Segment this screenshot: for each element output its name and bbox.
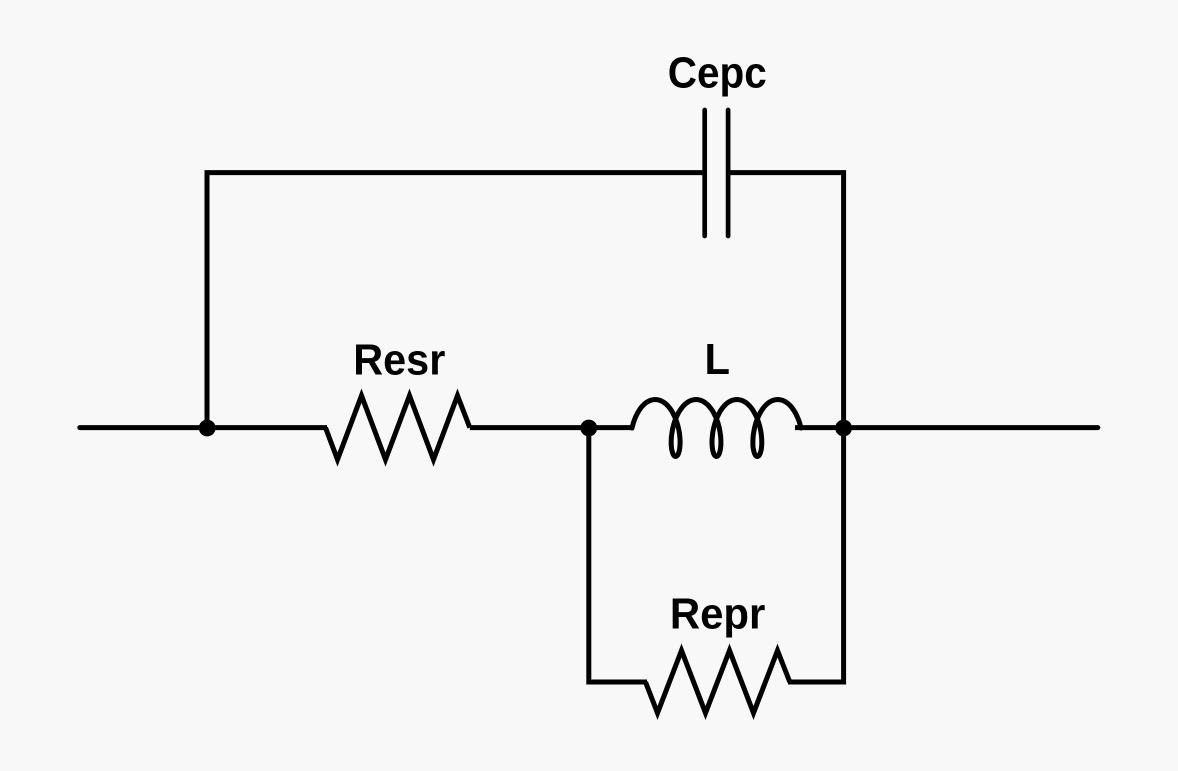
wire: node A to resistor Resr — [207, 425, 327, 430]
node C junction dot — [835, 420, 852, 437]
wire: inductor L to node C — [795, 425, 844, 430]
svg-text:L: L — [704, 335, 730, 384]
svg-text:Resr: Resr — [353, 336, 445, 385]
resistor Resr — [326, 396, 470, 460]
wire: capacitor Cepc right plate across and down to node C — [730, 173, 843, 430]
wire: resistor Resr to node B — [470, 425, 589, 430]
resistor Repr — [646, 651, 790, 714]
svg-text:Repr: Repr — [670, 590, 766, 639]
node B junction dot — [580, 420, 597, 437]
wire: node B down to bottom left corner and right to resistor Repr — [589, 425, 647, 682]
wire: node A up and across to capacitor Cepc left plate — [207, 173, 702, 430]
wire: node C to right terminal — [844, 425, 1098, 430]
wire: left terminal to node A — [80, 425, 207, 430]
inductor L — [632, 400, 801, 457]
node A junction dot — [199, 420, 216, 437]
wire: node C down to bottom right corner and left to resistor Repr — [788, 425, 844, 682]
wire: node B to inductor L — [589, 425, 634, 430]
capacitor Cepc left plate — [702, 110, 707, 236]
capacitor Cepc right plate — [726, 110, 731, 236]
svg-text:Cepc: Cepc — [668, 49, 767, 98]
